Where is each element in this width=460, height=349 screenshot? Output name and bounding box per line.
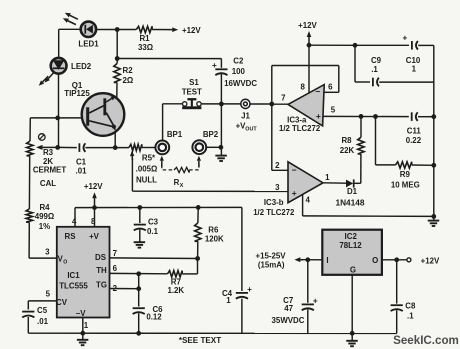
svg-text:+15-25V: +15-25V: [255, 251, 286, 260]
svg-text:8: 8: [91, 217, 96, 226]
svg-text:NULL: NULL: [136, 176, 157, 185]
svg-text:C8: C8: [405, 302, 416, 311]
svg-text:R1: R1: [139, 34, 150, 43]
svg-text:R2: R2: [123, 66, 134, 75]
svg-text:−V: −V: [76, 309, 87, 318]
svg-text:1: 1: [412, 64, 417, 73]
svg-text:5: 5: [46, 290, 51, 299]
svg-text:CV: CV: [56, 298, 68, 307]
svg-text:RS: RS: [65, 232, 76, 241]
svg-text:J1: J1: [241, 112, 250, 121]
svg-text:−: −: [315, 87, 320, 97]
svg-text:+12V: +12V: [421, 256, 440, 265]
svg-text:BP1: BP1: [167, 130, 183, 139]
svg-text:SeekIC.com: SeekIC.com: [393, 334, 459, 347]
svg-text:6: 6: [113, 264, 118, 273]
svg-text:1%: 1%: [39, 222, 50, 231]
svg-text:R9: R9: [400, 170, 411, 179]
svg-text:1: 1: [325, 173, 330, 182]
svg-text:.005Ω: .005Ω: [136, 164, 158, 173]
svg-text:CAL: CAL: [40, 179, 56, 188]
svg-text:22K: 22K: [340, 146, 355, 155]
svg-text:4: 4: [306, 196, 311, 205]
svg-text:C2: C2: [233, 56, 244, 65]
svg-text:7: 7: [281, 93, 286, 102]
svg-text:G: G: [350, 266, 356, 275]
svg-text:0.22: 0.22: [406, 136, 422, 145]
svg-text:8: 8: [301, 83, 306, 92]
svg-text:OUT: OUT: [245, 127, 257, 133]
svg-text:+12V: +12V: [84, 182, 103, 191]
svg-text:5: 5: [331, 106, 336, 115]
svg-text:TIP125: TIP125: [64, 89, 90, 98]
svg-text:1N4148: 1N4148: [335, 197, 364, 207]
svg-text:3: 3: [45, 248, 50, 257]
svg-text:O: O: [372, 256, 378, 265]
svg-text:C11: C11: [407, 127, 422, 136]
svg-text:1/2 TLC272: 1/2 TLC272: [279, 124, 321, 133]
svg-text:TLC555: TLC555: [59, 282, 88, 291]
svg-text:−: −: [292, 165, 297, 175]
svg-text:C3: C3: [148, 218, 159, 227]
svg-text:100: 100: [232, 67, 246, 76]
svg-text:+12V: +12V: [298, 21, 317, 30]
svg-text:IC3-b: IC3-b: [264, 198, 284, 207]
svg-text:CERMET: CERMET: [33, 166, 66, 175]
svg-text:X: X: [180, 183, 184, 189]
svg-text:.01: .01: [76, 167, 88, 176]
svg-text:C1: C1: [76, 158, 87, 167]
svg-text:2: 2: [275, 161, 280, 170]
svg-text:78L12: 78L12: [339, 241, 362, 250]
svg-text:C9: C9: [371, 56, 382, 65]
svg-text:.1: .1: [407, 311, 414, 320]
svg-text:2Ω: 2Ω: [123, 76, 134, 85]
svg-text:499Ω: 499Ω: [35, 212, 55, 221]
svg-text:+V: +V: [89, 232, 100, 241]
svg-text:(15mA): (15mA): [258, 260, 285, 269]
svg-text:1: 1: [226, 296, 231, 305]
svg-text:R8: R8: [341, 136, 352, 145]
svg-text:.1: .1: [371, 65, 378, 74]
svg-text:1: 1: [84, 321, 89, 330]
svg-text:10 MEG: 10 MEG: [391, 180, 420, 189]
svg-text:IC1: IC1: [67, 271, 80, 280]
svg-text:2: 2: [113, 284, 118, 293]
svg-text:LED2: LED2: [71, 62, 92, 71]
svg-text:R3: R3: [43, 148, 54, 157]
svg-text:O: O: [63, 260, 67, 266]
svg-text:LED1: LED1: [78, 40, 99, 49]
svg-text:7: 7: [113, 249, 118, 258]
svg-text:R6: R6: [208, 226, 219, 235]
svg-text:1/2 TLC272: 1/2 TLC272: [253, 208, 295, 217]
svg-text:C5: C5: [37, 306, 48, 315]
svg-text:+: +: [403, 34, 408, 43]
svg-text:3: 3: [275, 183, 280, 192]
svg-text:.01: .01: [37, 317, 49, 326]
svg-text:1.2K: 1.2K: [167, 286, 184, 295]
svg-text:+: +: [212, 61, 217, 70]
svg-text:I: I: [326, 256, 328, 265]
svg-text:+: +: [292, 188, 297, 198]
svg-text:R7: R7: [171, 277, 182, 286]
svg-text:120K: 120K: [205, 234, 224, 243]
svg-text:*SEE TEXT: *SEE TEXT: [179, 336, 221, 345]
svg-text:+: +: [247, 285, 252, 294]
svg-text:R5*: R5*: [142, 153, 156, 162]
svg-text:IC2: IC2: [345, 232, 358, 241]
svg-text:R4: R4: [39, 203, 50, 212]
svg-text:BP2: BP2: [203, 130, 219, 139]
svg-text:47: 47: [284, 304, 293, 313]
svg-text:TH: TH: [96, 266, 107, 275]
svg-text:16WVDC: 16WVDC: [224, 79, 257, 88]
svg-text:TG: TG: [96, 280, 107, 289]
svg-text:+: +: [313, 296, 318, 305]
svg-text:35WVDC: 35WVDC: [272, 316, 305, 325]
svg-text:33Ω: 33Ω: [138, 43, 153, 52]
svg-text:0.1: 0.1: [147, 227, 159, 236]
svg-text:+12V: +12V: [182, 26, 201, 35]
svg-text:0.12: 0.12: [146, 313, 162, 322]
svg-text:+: +: [316, 111, 321, 121]
svg-text:D1: D1: [347, 187, 358, 196]
svg-text:S1: S1: [189, 78, 199, 87]
svg-text:TEST: TEST: [182, 88, 202, 97]
svg-text:DS: DS: [95, 253, 106, 262]
svg-text:4: 4: [72, 217, 77, 226]
svg-text:6: 6: [328, 82, 333, 91]
